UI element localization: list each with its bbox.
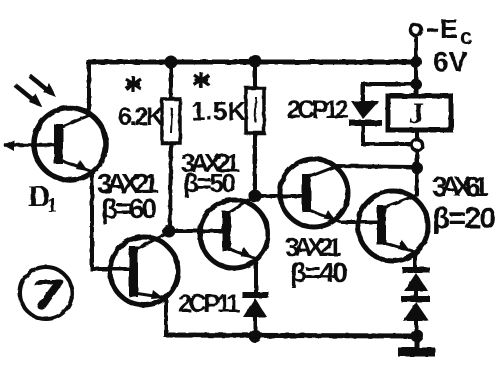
- svg-text:β=40: β=40: [290, 257, 348, 288]
- diode 2CP12: [349, 101, 382, 144]
- svg-text:β=50: β=50: [183, 168, 236, 198]
- svg-text:2CP12: 2CP12: [287, 96, 349, 124]
- node Q1 collector / Q2 base: [163, 225, 176, 238]
- node rail / relay branch: [410, 56, 422, 68]
- wire rail to relay: [414, 62, 418, 95]
- svg-text:β=60: β=60: [101, 193, 157, 224]
- svg-text:J: J: [409, 97, 424, 130]
- asterisk mark R2: [194, 72, 209, 88]
- svg-text:2CP11: 2CP11: [178, 290, 240, 318]
- wire 2CP12 top branch: [363, 84, 411, 101]
- terminal -Ec: [411, 25, 422, 61]
- wire Q2 emitter down: [254, 258, 258, 292]
- relay J: [388, 96, 451, 130]
- wire D1 emitter to Q1 base: [92, 171, 132, 269]
- svg-text:1.5K: 1.5K: [191, 96, 246, 126]
- phototransistor D1: [3, 108, 106, 180]
- wire R1 bottom: [170, 143, 171, 227]
- wire D1 collector to rail: [87, 62, 91, 116]
- svg-text:1: 1: [47, 193, 58, 217]
- wire down to Q4 collector: [415, 168, 419, 197]
- node relay top: [411, 79, 422, 90]
- svg-text:6V: 6V: [433, 46, 468, 77]
- svg-text:6.2K: 6.2K: [118, 103, 164, 131]
- diode D-B: [401, 299, 430, 336]
- wire Q1 emitter down: [164, 297, 168, 336]
- resistor R2 1.5K: [246, 55, 264, 192]
- wire bottom rail: [164, 335, 417, 336]
- node 2CP11 bottom: [249, 330, 262, 343]
- resistor R1 6.2K: [162, 99, 180, 143]
- diode D-A: [402, 270, 430, 297]
- asterisk mark R1: [126, 76, 141, 92]
- light arrows into D1: [15, 76, 56, 107]
- wire top rail: [86, 60, 418, 65]
- svg-text:E: E: [440, 14, 458, 44]
- svg-text:3AX61: 3AX61: [432, 171, 489, 202]
- transistor Q3 3AX21 b40: [255, 159, 348, 227]
- node R1 top: [165, 56, 178, 69]
- wire Q4 emitter down: [413, 251, 417, 268]
- ground: [398, 336, 435, 352]
- transistor Q4 3AX61 b20: [341, 191, 428, 261]
- node Q2 collector / Q3 base: [249, 190, 262, 203]
- wire R1 top: [169, 62, 173, 99]
- label -Ec: [427, 28, 438, 32]
- svg-text:β=20: β=20: [432, 202, 496, 235]
- transistor Q2 3AX21 b50: [169, 197, 268, 268]
- wire Q3 collector run: [336, 166, 412, 167]
- node Q3 collector junction: [411, 162, 423, 174]
- node relay bottom (open): [412, 140, 423, 151]
- transistor Q1 3AX21 b60: [110, 233, 178, 305]
- node bottom right: [411, 330, 424, 343]
- diode 2CP11: [242, 295, 269, 336]
- figure number 7: [20, 267, 72, 319]
- wire 2CP12 bottom branch: [361, 142, 412, 146]
- wire relay node down: [415, 150, 419, 168]
- wire relay bottom: [415, 130, 419, 140]
